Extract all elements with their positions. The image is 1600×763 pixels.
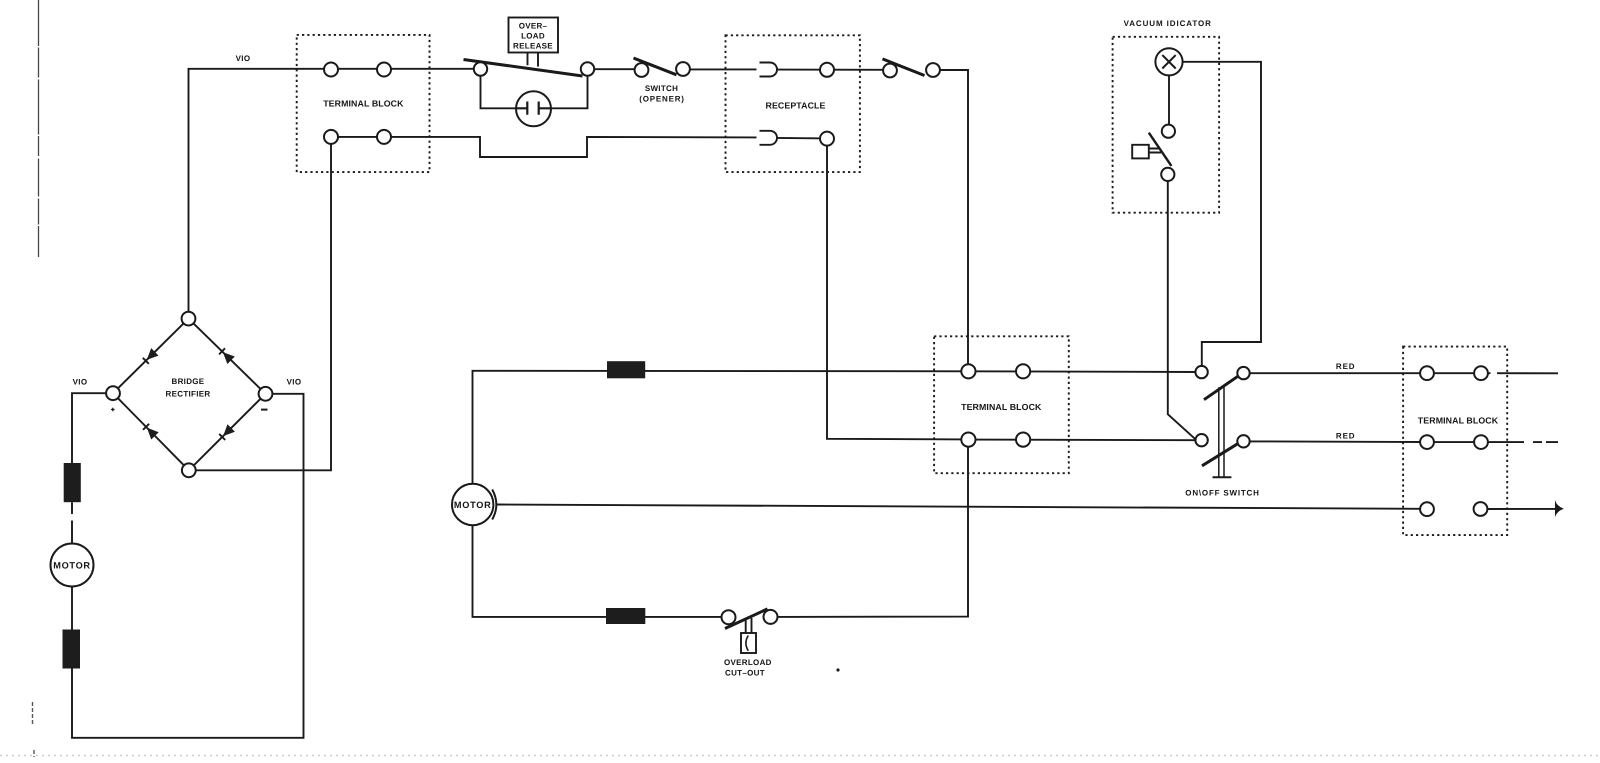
wire: motor2 row3 long line to right terminal block <box>497 505 1420 509</box>
overload release label box <box>509 18 559 53</box>
wire: dash-dot below fuse1 to motor1 <box>71 502 73 543</box>
motor M2 circle <box>452 484 493 525</box>
wire: cut-out to riser up to mid terminal block row2 <box>778 447 969 617</box>
wire: on/off row2 to right terminal block, RED <box>1250 440 1420 443</box>
overload cut-out switch arm <box>725 609 768 629</box>
svg-text:LOAD: LOAD <box>521 32 545 41</box>
svg-text:VIO: VIO <box>73 378 88 387</box>
vacuum switch upper contact circle <box>1162 125 1175 138</box>
on/off switch linkage base bar <box>1213 476 1232 478</box>
on/off switch linkage <box>1219 387 1224 477</box>
lamp X mark <box>1162 55 1175 68</box>
svg-text:RECTIFIER: RECTIFIER <box>166 390 211 399</box>
receptacle plug symbol row1 <box>760 63 778 77</box>
lamp circle <box>1155 48 1182 75</box>
svg-text:RELEASE: RELEASE <box>513 42 553 51</box>
wire: TB1 row2 to capacitor jog to receptacle <box>331 137 757 157</box>
svg-text:MOTOR: MOTOR <box>53 561 91 571</box>
capacitor plates <box>517 102 552 115</box>
svg-text:BRIDGE: BRIDGE <box>172 377 205 386</box>
terminal block TB1 contact circles <box>324 63 338 77</box>
receptacle plug symbol row2 <box>760 131 778 145</box>
svg-text:RED: RED <box>1336 432 1356 441</box>
fuse F2 black block <box>63 630 81 669</box>
wire: TB1 bottom-left descender to bridge bottom node <box>196 144 332 470</box>
switch3 arm after receptacle <box>883 59 925 76</box>
svg-text:RECEPTACLE: RECEPTACLE <box>766 100 826 110</box>
svg-text:VIO: VIO <box>236 54 251 63</box>
on/off switch arm row2 <box>1202 442 1240 466</box>
wire: motor1 to fuse2 <box>71 587 73 630</box>
vacuum switch lower contact circle <box>1161 168 1174 181</box>
switch (opener) label <box>639 84 685 104</box>
scan artifact: lower-left tick marks <box>33 702 35 757</box>
wire: opener to receptacle plug1 <box>690 68 757 70</box>
wire: left node to left VIO rail down to fuse1 <box>72 393 106 463</box>
wire: fuse2 down to bottom rail and right VIO rail up <box>72 394 304 738</box>
polarity - mark <box>261 409 268 411</box>
svg-text:MOTOR: MOTOR <box>454 500 492 510</box>
terminal block TB1 (top-left) dotted box <box>297 35 430 172</box>
overload cut-out element squiggle <box>746 636 748 651</box>
on/off switch contact circles <box>1195 366 1207 378</box>
wire: receptacle row2 descender down and right to mid terminal block <box>827 146 968 440</box>
scan artifact: bottom dotted rule <box>0 755 1600 757</box>
arrow head row3 <box>1555 500 1564 517</box>
polarity + mark <box>111 408 115 412</box>
wire: motor2 bottom loop to overload cut-out <box>473 525 722 617</box>
fuse F1 black block <box>64 463 81 502</box>
overload release switch arm <box>464 60 583 77</box>
scan artifact: left margin broken line <box>38 0 40 257</box>
vacuum switch actuator box <box>1132 145 1149 159</box>
wire: between overload switch and opener switch <box>595 68 637 70</box>
svg-text:TERMINAL BLOCK: TERMINAL BLOCK <box>1418 416 1499 426</box>
wire: switch3 to corner down to mid terminal block row1 <box>940 70 969 371</box>
wire: bypass loop with capacitor <box>481 75 588 108</box>
wire: plug1 to switch3 <box>777 69 884 71</box>
svg-text:(OPENER): (OPENER) <box>639 95 685 104</box>
wire: TB3 row3 exit with arrow <box>1488 508 1556 510</box>
on/off switch arm row1 <box>1204 375 1240 400</box>
bridge rectifier arms <box>113 319 266 471</box>
svg-text:TERMINAL BLOCK: TERMINAL BLOCK <box>323 99 404 109</box>
wire: plug2 to receptacle row2 circle <box>777 137 827 140</box>
svg-text:TERMINAL BLOCK: TERMINAL BLOCK <box>961 402 1042 412</box>
wire: TB3 row1 inner and exit <box>1427 372 1558 374</box>
overload cut-out label <box>724 658 772 678</box>
overload cut-out element legs <box>746 618 752 633</box>
overload release label text <box>513 22 553 51</box>
svg-text:SWITCH: SWITCH <box>645 84 678 93</box>
wire: TB3 row2 inner and exit dashes <box>1427 441 1558 443</box>
receptacle contact circle row2 <box>820 132 834 146</box>
inductor L1 black block <box>607 361 645 378</box>
bridge node circles <box>182 312 196 326</box>
terminal block TB2 contact circles <box>961 364 975 378</box>
diode D4 lower-right <box>223 424 235 436</box>
diode D1 upper-left <box>147 348 159 360</box>
bridge rectifier label <box>166 377 211 399</box>
switch3 contact circles <box>883 64 897 78</box>
wire: TB2 row2 to on/off switch <box>968 439 1196 442</box>
wire: main top line from VIO corner to overload-release switch <box>189 69 475 312</box>
svg-text:CUT–OUT: CUT–OUT <box>725 669 765 678</box>
vacuum switch actuator link <box>1149 149 1161 153</box>
svg-text:OVERLOAD: OVERLOAD <box>724 658 772 667</box>
switch (opener) arm <box>634 58 677 75</box>
overload cut-out element box <box>741 633 756 653</box>
svg-text:ON\OFF SWITCH: ON\OFF SWITCH <box>1185 489 1259 498</box>
diode D2 upper-right <box>223 352 235 364</box>
wire: lamp bottom to vacuum switch <box>1168 75 1170 125</box>
wire: TB2 row1 to on/off switch <box>968 370 1196 373</box>
overload cut-out contact circles <box>722 610 736 624</box>
motor M2 brush arc <box>492 490 496 520</box>
svg-text:VACUUM IDICATOR: VACUUM IDICATOR <box>1124 19 1212 28</box>
svg-text:OVER–: OVER– <box>519 22 548 31</box>
scan artifact: small dot near cut-out <box>836 668 839 671</box>
inductor L2 black block <box>606 608 645 624</box>
receptacle contact circle row1 <box>820 63 834 77</box>
vacuum indicator dotted box <box>1113 37 1220 213</box>
terminal block TB2 (middle) dotted box <box>934 336 1069 473</box>
vacuum switch arm <box>1149 133 1172 166</box>
switch (opener) contact circles <box>635 63 649 77</box>
svg-text:RED: RED <box>1336 362 1356 371</box>
capacitor circle <box>516 91 551 126</box>
svg-text:VIO: VIO <box>287 378 302 387</box>
wire: on/off row1 to right terminal block, RED <box>1250 372 1420 374</box>
overload release legs <box>528 53 539 67</box>
terminal block TB3 contact circles <box>1420 366 1434 380</box>
wire: vacuum switch down and diagonal to on/off switch row2 <box>1168 181 1197 440</box>
overload release switch contact circles <box>474 62 487 75</box>
motor M1 circle <box>51 544 94 587</box>
wire: motor2 top to mid terminal block row1 <box>473 371 969 484</box>
wire: lamp to right rail down to on/off switch row1 <box>1183 62 1261 367</box>
terminal block TB3 (right) dotted box <box>1403 347 1507 535</box>
diode D3 lower-left <box>147 428 159 440</box>
receptacle dotted box <box>726 35 860 172</box>
